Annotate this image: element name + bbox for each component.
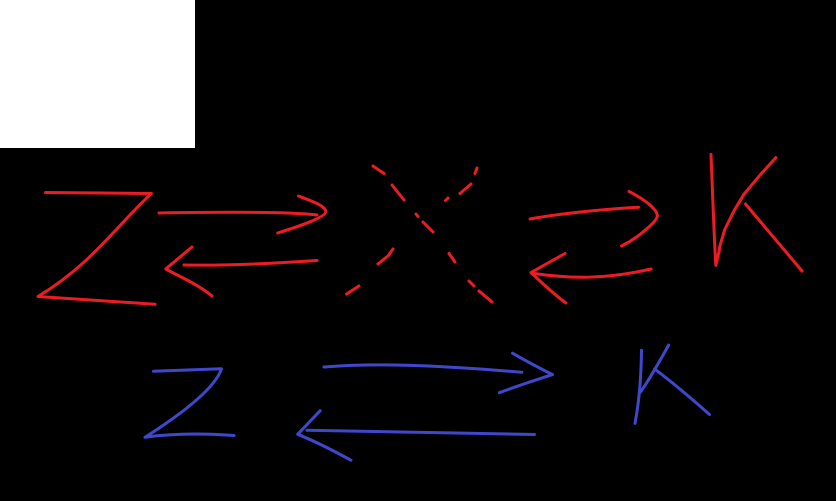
red arrow shaft X to Z (pointing left) — [184, 261, 317, 266]
red arrow shaft Z to X (pointing right) — [159, 212, 317, 215]
red dashed X stroke 1 dash c — [416, 214, 418, 217]
red arrowhead right (upper-right arrow) — [622, 192, 658, 247]
red dashed X stroke 2 dash e — [378, 258, 386, 265]
red letter K leg stroke — [746, 204, 803, 271]
red arrow shaft K to X (pointing left) — [531, 269, 651, 277]
red letter K diagonal stroke — [719, 158, 776, 252]
blue letter K diagonal stroke — [640, 345, 669, 392]
red arrowhead right (upper-left arrow) — [278, 196, 326, 233]
red dashed X stroke 2 dash b — [460, 184, 471, 194]
blue letter Z — [145, 369, 234, 438]
red letter K vertical stroke — [711, 155, 719, 266]
red dashed X stroke 1 dash g — [479, 291, 492, 302]
blue arrow shaft Z to K (pointing right) — [324, 365, 522, 372]
red dashed X stroke 1 dash a — [373, 166, 384, 174]
white panel top-left — [0, 0, 195, 148]
red dashed X stroke 1 dash e — [449, 254, 455, 263]
red dashed X stroke 1 dash b — [392, 185, 404, 200]
red dashed X stroke 2 dash a — [475, 168, 477, 174]
red dashed X stroke 1 dash d — [423, 222, 433, 232]
blue arrow shaft K to Z (pointing left) — [307, 430, 535, 434]
red arrowhead left (lower-left arrow) — [166, 247, 212, 296]
red dashed X stroke 2 dash c — [446, 198, 449, 201]
red dashed X stroke 2 dash d — [388, 249, 393, 256]
red arrow shaft X to K (pointing right) — [530, 207, 639, 219]
red arrowhead left (lower-right arrow) — [531, 254, 566, 304]
blue letter K vertical stroke — [635, 350, 642, 423]
blue letter K leg stroke — [655, 369, 710, 415]
red dashed X stroke 1 dash f — [469, 281, 474, 286]
red letter Z — [38, 193, 155, 305]
blue arrowhead right — [499, 353, 552, 393]
blue arrowhead left — [298, 411, 351, 461]
red dashed X stroke 2 dash f — [347, 286, 360, 294]
